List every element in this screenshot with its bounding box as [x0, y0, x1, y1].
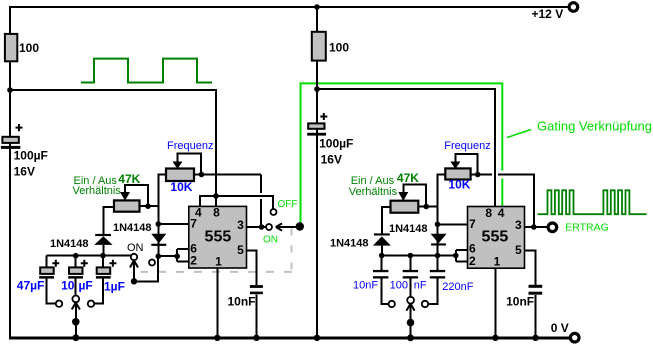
- svg-text:555: 555: [482, 229, 509, 246]
- svg-text:1: 1: [494, 255, 501, 269]
- svg-text:ON: ON: [127, 242, 144, 254]
- svg-text:1N4148: 1N4148: [389, 223, 428, 235]
- svg-text:Verhältnis: Verhältnis: [349, 186, 398, 198]
- svg-text:100: 100: [19, 41, 39, 55]
- svg-text:10K: 10K: [448, 178, 470, 192]
- svg-text:1N4148: 1N4148: [330, 237, 369, 249]
- svg-text:10nF: 10nF: [353, 280, 378, 292]
- svg-text:1N4148: 1N4148: [50, 238, 89, 250]
- svg-text:5: 5: [237, 243, 244, 257]
- svg-text:ERTRAG: ERTRAG: [565, 222, 609, 234]
- svg-text:100: 100: [329, 41, 349, 55]
- svg-text:10K: 10K: [170, 180, 192, 194]
- svg-text:3: 3: [237, 218, 244, 232]
- svg-text:1N4148: 1N4148: [113, 222, 152, 234]
- svg-text:2: 2: [469, 254, 476, 268]
- svg-text:Verhältnis: Verhältnis: [73, 185, 122, 197]
- svg-text:OFF: OFF: [278, 199, 298, 210]
- svg-text:0 V: 0 V: [551, 321, 569, 335]
- svg-text:47K: 47K: [397, 171, 419, 185]
- svg-text:2: 2: [190, 254, 197, 268]
- svg-text:7: 7: [469, 217, 476, 231]
- svg-text:Gating Verknüpfung: Gating Verknüpfung: [537, 119, 652, 134]
- svg-text:µF: µF: [79, 279, 93, 293]
- svg-text:5: 5: [515, 243, 522, 257]
- svg-text:47K: 47K: [118, 172, 140, 186]
- svg-text:ON: ON: [263, 235, 278, 246]
- svg-text:1µF: 1µF: [104, 280, 125, 294]
- svg-text:4: 4: [498, 206, 505, 220]
- svg-text:100µF: 100µF: [319, 137, 353, 151]
- svg-text:47µF: 47µF: [17, 279, 45, 293]
- svg-text:1: 1: [215, 255, 222, 269]
- svg-text:555: 555: [205, 229, 232, 246]
- svg-text:100: 100: [390, 280, 408, 292]
- svg-text:8: 8: [213, 206, 220, 220]
- svg-text:100µF: 100µF: [14, 149, 48, 163]
- svg-text:8: 8: [485, 206, 492, 220]
- svg-text:nF: nF: [414, 280, 427, 292]
- svg-text:7: 7: [190, 216, 197, 230]
- svg-text:16V: 16V: [321, 153, 342, 167]
- svg-text:+12 V: +12 V: [532, 7, 564, 21]
- svg-text:16V: 16V: [14, 165, 35, 179]
- svg-text:Frequenz: Frequenz: [444, 140, 490, 152]
- svg-text:10nF: 10nF: [506, 295, 534, 309]
- svg-text:3: 3: [515, 218, 522, 232]
- svg-text:10nF: 10nF: [228, 295, 256, 309]
- svg-text:220nF: 220nF: [442, 281, 473, 293]
- svg-text:Frequenz: Frequenz: [167, 140, 213, 152]
- svg-text:10: 10: [61, 279, 75, 293]
